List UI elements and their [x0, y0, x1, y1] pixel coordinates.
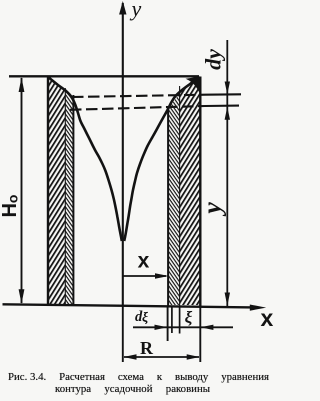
dimension H0 line [21, 78, 23, 303]
caption line 1 [8, 371, 269, 383]
x-axis arrowhead [250, 305, 266, 311]
dxi arrowhead (points right) [155, 325, 168, 330]
solid ink wedge at wall R1 top corner [186, 77, 201, 96]
svg-text:y: y [197, 202, 226, 217]
x dimension arrowhead [155, 273, 169, 279]
cavity contour right branch [124, 77, 200, 241]
y-axis arrowhead [119, 1, 126, 15]
dimension line dy / y vertical [226, 40, 228, 307]
caption line 2 [55, 383, 210, 395]
dimension H0 top arrowhead [19, 77, 25, 92]
wall L1 hatch outer strip [48, 77, 74, 306]
svg-text:x: x [138, 250, 150, 273]
extension below axis: tick 2 [171, 306, 173, 333]
xi arrowhead (points left) [201, 325, 214, 330]
svg-text:dy: dy [201, 49, 226, 70]
top metal level line [9, 75, 199, 77]
x-axis [3, 304, 254, 307]
extension below axis: front line [167, 306, 169, 341]
dashed intermediate level line 1 [72, 94, 241, 97]
y-axis [122, 3, 124, 305]
dashed intermediate level line 2 [70, 106, 239, 110]
svg-text:R: R [140, 338, 154, 358]
wall R1 hatch strips [168, 77, 201, 306]
dy lower arrowhead (points up to level line 2) [225, 107, 230, 120]
dimension H0 bottom arrowhead [19, 289, 25, 304]
wall L1 hatch inner strip [65, 77, 74, 306]
svg-text:y: y [130, 0, 142, 21]
extension below axis: seam tick [179, 306, 181, 333]
extension below axis: y-axis tail [122, 305, 124, 362]
cavity contour left branch [48, 77, 122, 241]
y dimension bottom arrowhead at x-axis [225, 293, 230, 307]
wall R1 seam [179, 86, 181, 306]
svg-text:ξ: ξ [185, 308, 193, 327]
R left arrowhead [124, 354, 137, 360]
dimension line dxi/xi [133, 326, 233, 328]
svg-text:ξ: ξ [142, 310, 148, 325]
svg-text:x: x [261, 305, 274, 331]
wall R1 outer edge [199, 77, 201, 307]
dimension x horizontal [123, 275, 166, 277]
R right arrowhead [187, 354, 200, 360]
dimension R line [124, 356, 199, 358]
wall L1 inner edge [72, 95, 74, 305]
wall L1 seam [64, 88, 66, 305]
extension below axis: wall outer tail [199, 307, 201, 362]
wall L1 outer edge [47, 77, 49, 305]
dy upper arrowhead (points down to level line 1) [225, 82, 230, 95]
wall R1 inner edge [167, 109, 169, 306]
